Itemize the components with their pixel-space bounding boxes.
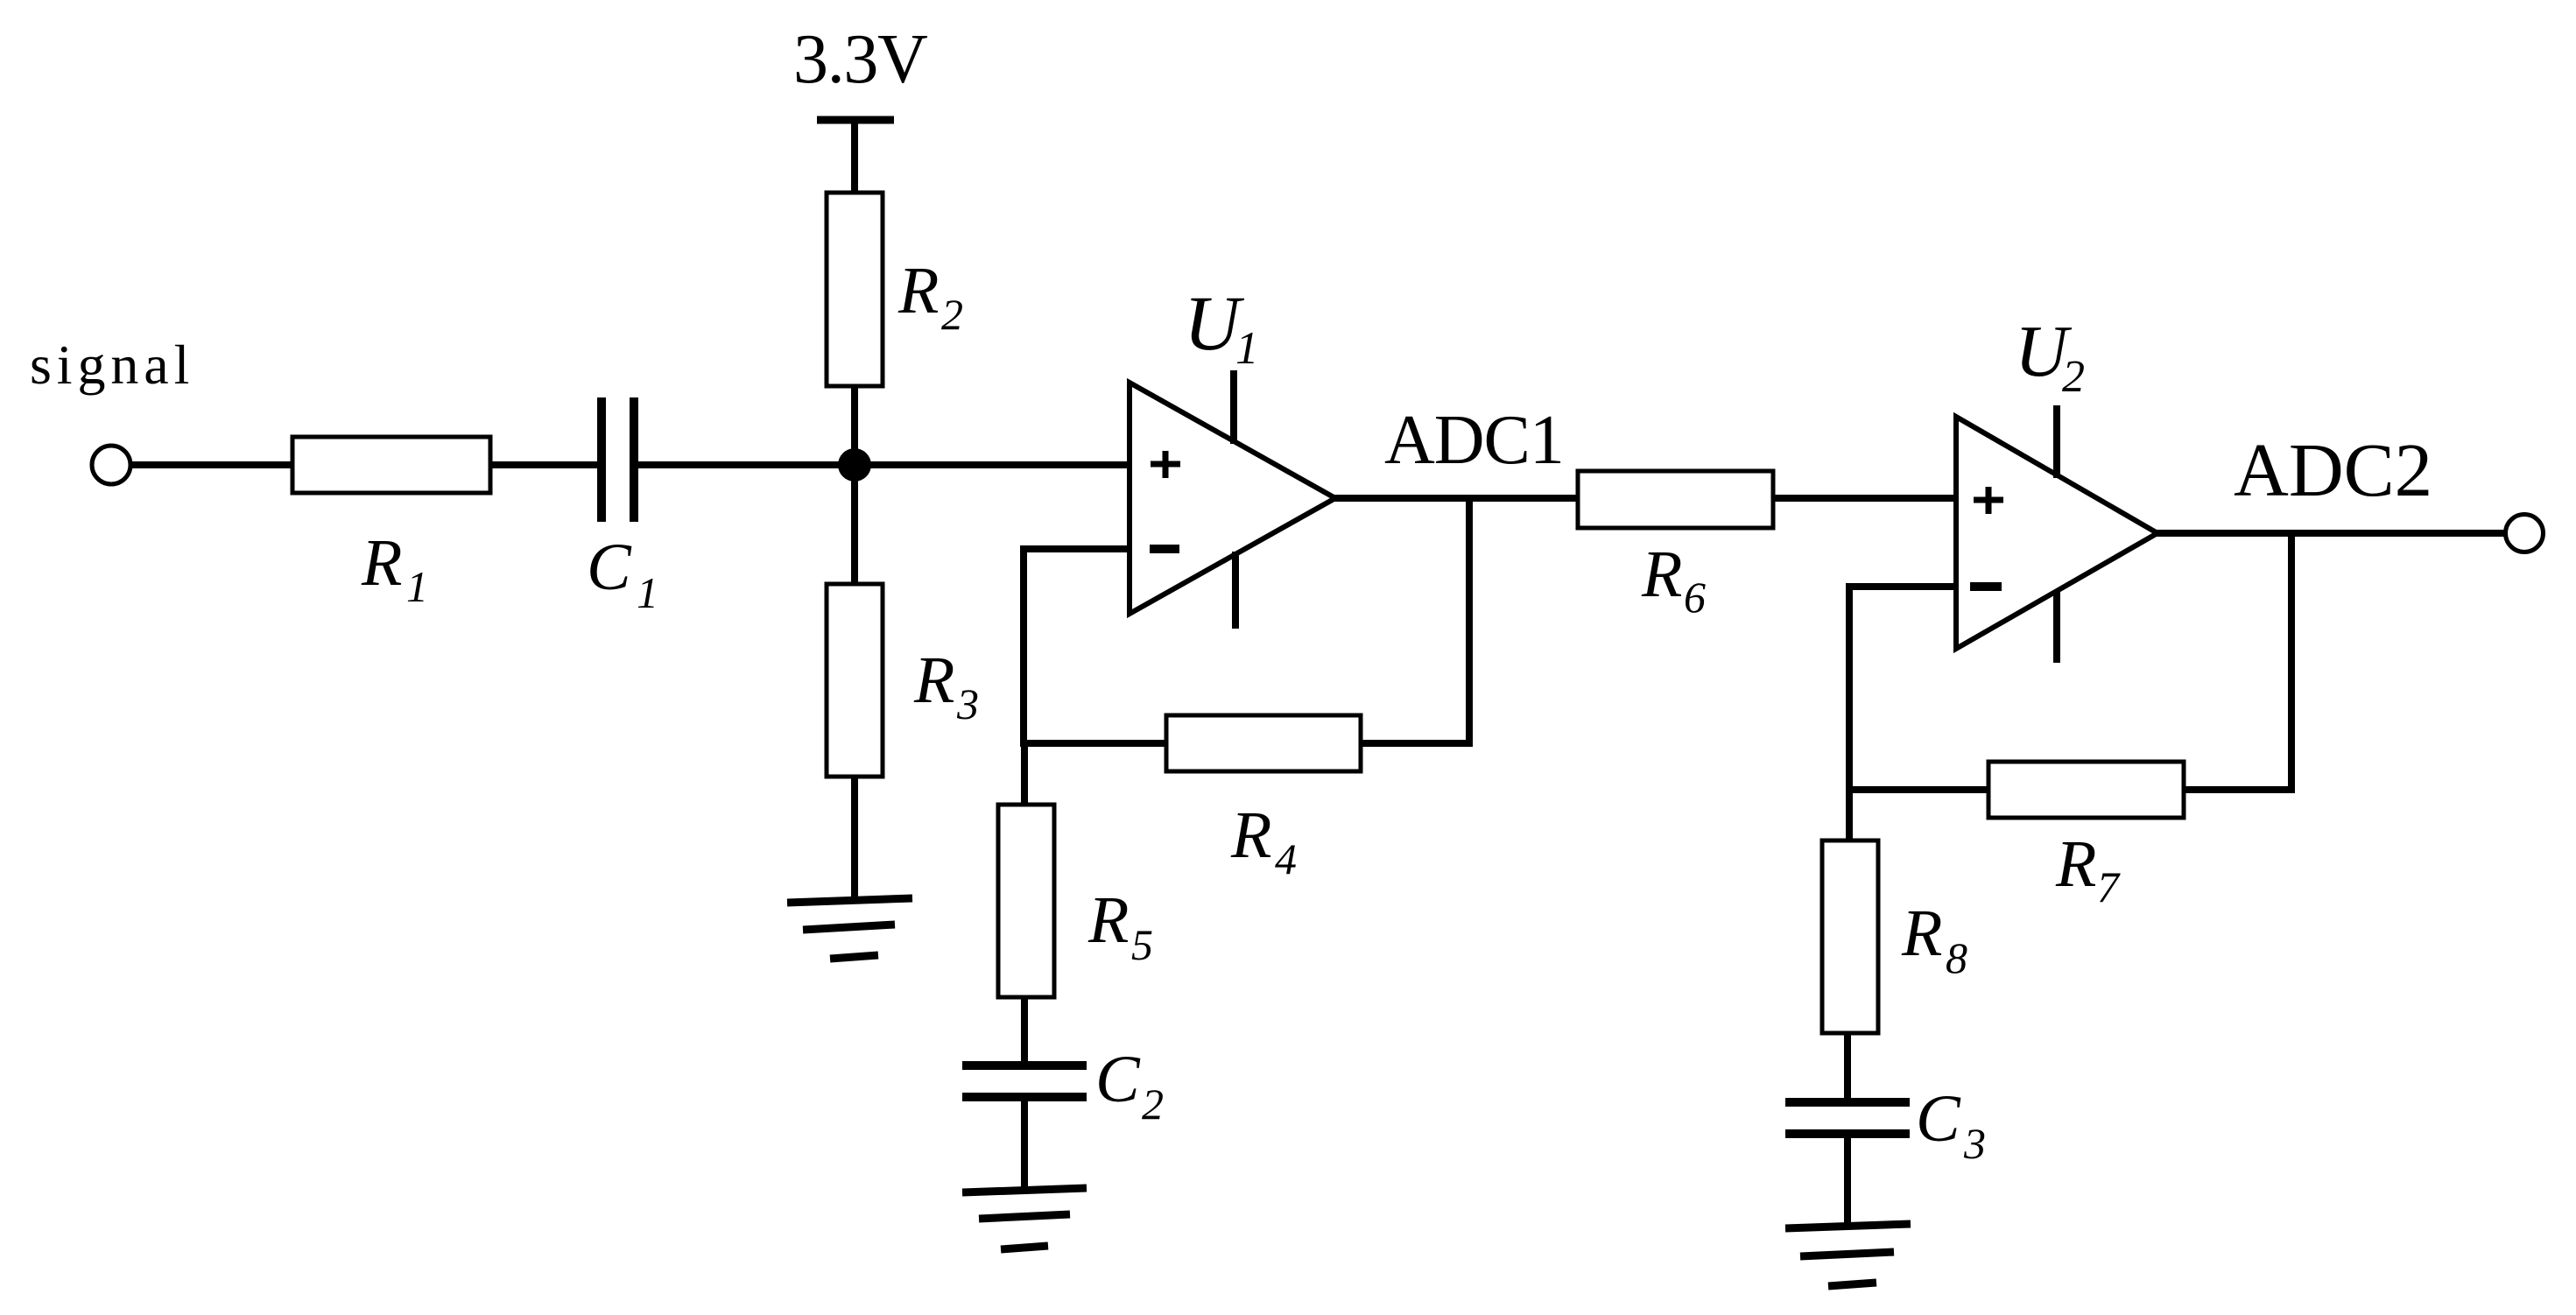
svg-text:signal: signal bbox=[30, 334, 194, 396]
op-amp U2 bbox=[1956, 417, 2157, 649]
resistor R7 bbox=[1988, 762, 2184, 818]
wire R4 to vertical riser bbox=[1361, 740, 1473, 747]
svg-text:1: 1 bbox=[406, 562, 428, 611]
resistor R8 bbox=[1822, 840, 1878, 1033]
svg-text:C: C bbox=[1095, 1043, 1141, 1116]
wire U2 output to terminal node ADC2 bbox=[2156, 530, 2505, 537]
power 3.3V bar bbox=[817, 116, 894, 124]
resistor R3 bbox=[827, 584, 883, 777]
capacitor C3 bbox=[1785, 1102, 1910, 1134]
resistor R5 bbox=[998, 805, 1054, 997]
svg-text:R: R bbox=[1901, 897, 1942, 970]
svg-text:7: 7 bbox=[2097, 862, 2121, 911]
svg-text:3: 3 bbox=[956, 679, 979, 728]
ground under C3 bbox=[1785, 1224, 1911, 1286]
node output terminal bbox=[2506, 515, 2544, 552]
svg-text:R: R bbox=[1230, 798, 1271, 872]
op-amp U1 bbox=[1130, 383, 1335, 614]
svg-text:8: 8 bbox=[1946, 933, 1967, 982]
svg-text:C: C bbox=[587, 531, 632, 604]
wire riser from ADC2 net down to R7 bbox=[2288, 530, 2295, 793]
svg-text:4: 4 bbox=[1275, 834, 1297, 883]
op-amp U1 plus sign bbox=[1151, 451, 1180, 478]
op-amp U2 minus sign bbox=[1970, 582, 2002, 591]
svg-text:R: R bbox=[1087, 883, 1129, 957]
wire feedback node down to R8 bbox=[1846, 790, 1853, 841]
svg-text:R: R bbox=[2055, 827, 2096, 901]
svg-text:6: 6 bbox=[1684, 573, 1706, 622]
junction dot node A bbox=[838, 448, 871, 482]
wire R2 to junction bbox=[851, 386, 858, 468]
wire junction to R3 bbox=[851, 465, 858, 585]
node signal input terminal bbox=[92, 446, 130, 484]
wire U1 minus input bbox=[1020, 545, 1131, 552]
wire R7 to vertical riser bbox=[2183, 786, 2295, 793]
svg-text:ADC2: ADC2 bbox=[2234, 427, 2432, 512]
svg-text:3.3V: 3.3V bbox=[793, 21, 927, 98]
svg-text:ADC1: ADC1 bbox=[1384, 402, 1564, 479]
svg-text:2: 2 bbox=[2062, 352, 2085, 402]
wire feedback node to R7 bbox=[1849, 786, 1990, 793]
wire input terminal to R1 bbox=[130, 461, 294, 468]
resistor R6 bbox=[1578, 471, 1773, 528]
wire R8 to C3 bbox=[1844, 1033, 1851, 1106]
op-amp U2 top power pin bbox=[2053, 405, 2060, 478]
svg-text:R: R bbox=[913, 643, 954, 717]
wire U2 minus down to feedback node bbox=[1846, 583, 1853, 793]
svg-text:2: 2 bbox=[941, 290, 963, 339]
resistor R4 bbox=[1166, 715, 1361, 771]
wire C2 to ground bbox=[1021, 1101, 1028, 1192]
op-amp U1 top power pin bbox=[1230, 370, 1237, 444]
wire C1 to U1 plus input bbox=[638, 461, 1131, 468]
wire feedback node down to R5 bbox=[1021, 743, 1028, 805]
svg-text:5: 5 bbox=[1131, 920, 1153, 969]
wire U2 minus input bbox=[1846, 583, 1958, 590]
wire C3 to ground bbox=[1844, 1137, 1851, 1227]
ground under C2 bbox=[962, 1188, 1087, 1249]
wire R3 to ground bbox=[851, 777, 858, 900]
svg-text:R: R bbox=[897, 254, 939, 327]
op-amp U1 minus sign bbox=[1150, 545, 1179, 553]
wire U1 minus down to feedback node bbox=[1020, 545, 1027, 747]
op-amp U1 bottom power pin bbox=[1232, 552, 1239, 629]
svg-text:1: 1 bbox=[637, 568, 658, 617]
svg-text:C: C bbox=[1916, 1082, 1961, 1156]
wire riser from ADC1 net down to R4 bbox=[1466, 495, 1473, 747]
svg-text:1: 1 bbox=[1235, 323, 1259, 374]
wire R6 to U2 plus input bbox=[1773, 495, 1958, 502]
wire R1 to C1 bbox=[490, 461, 599, 468]
svg-text:3: 3 bbox=[1963, 1119, 1986, 1168]
resistor R2 bbox=[827, 193, 883, 386]
svg-text:2: 2 bbox=[1142, 1079, 1164, 1129]
op-amp U2 bottom power pin bbox=[2053, 591, 2060, 663]
wire U1 output to R6 node ADC1 bbox=[1334, 495, 1580, 502]
capacitor C1 bbox=[602, 397, 634, 522]
svg-text:R: R bbox=[361, 526, 402, 600]
svg-text:R: R bbox=[1641, 538, 1682, 611]
wire feedback node to R4 bbox=[1024, 740, 1168, 747]
wire 3.3V bar to R2 bbox=[851, 123, 858, 193]
ground under R3 bbox=[787, 898, 912, 959]
wire R5 to C2 bbox=[1021, 997, 1028, 1069]
capacitor C2 bbox=[962, 1065, 1087, 1097]
op-amp U2 plus sign bbox=[1974, 487, 2003, 514]
resistor R1 bbox=[292, 437, 490, 493]
